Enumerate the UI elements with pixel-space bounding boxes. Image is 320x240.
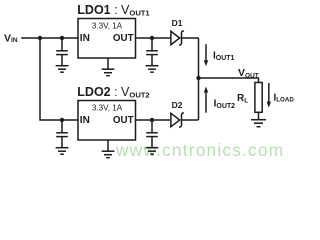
svg-text:D2: D2 [172, 100, 183, 110]
svg-text:D1: D1 [172, 18, 183, 28]
svg-text:OUT: OUT [113, 115, 134, 126]
svg-text:IN: IN [80, 33, 90, 44]
svg-text:OUT: OUT [113, 33, 134, 44]
svg-text:www.cntronics.com: www.cntronics.com [115, 140, 284, 160]
svg-text:3.3V, 1A: 3.3V, 1A [92, 104, 123, 113]
svg-text:3.3V, 1A: 3.3V, 1A [92, 22, 123, 31]
svg-text:IN: IN [80, 115, 90, 126]
